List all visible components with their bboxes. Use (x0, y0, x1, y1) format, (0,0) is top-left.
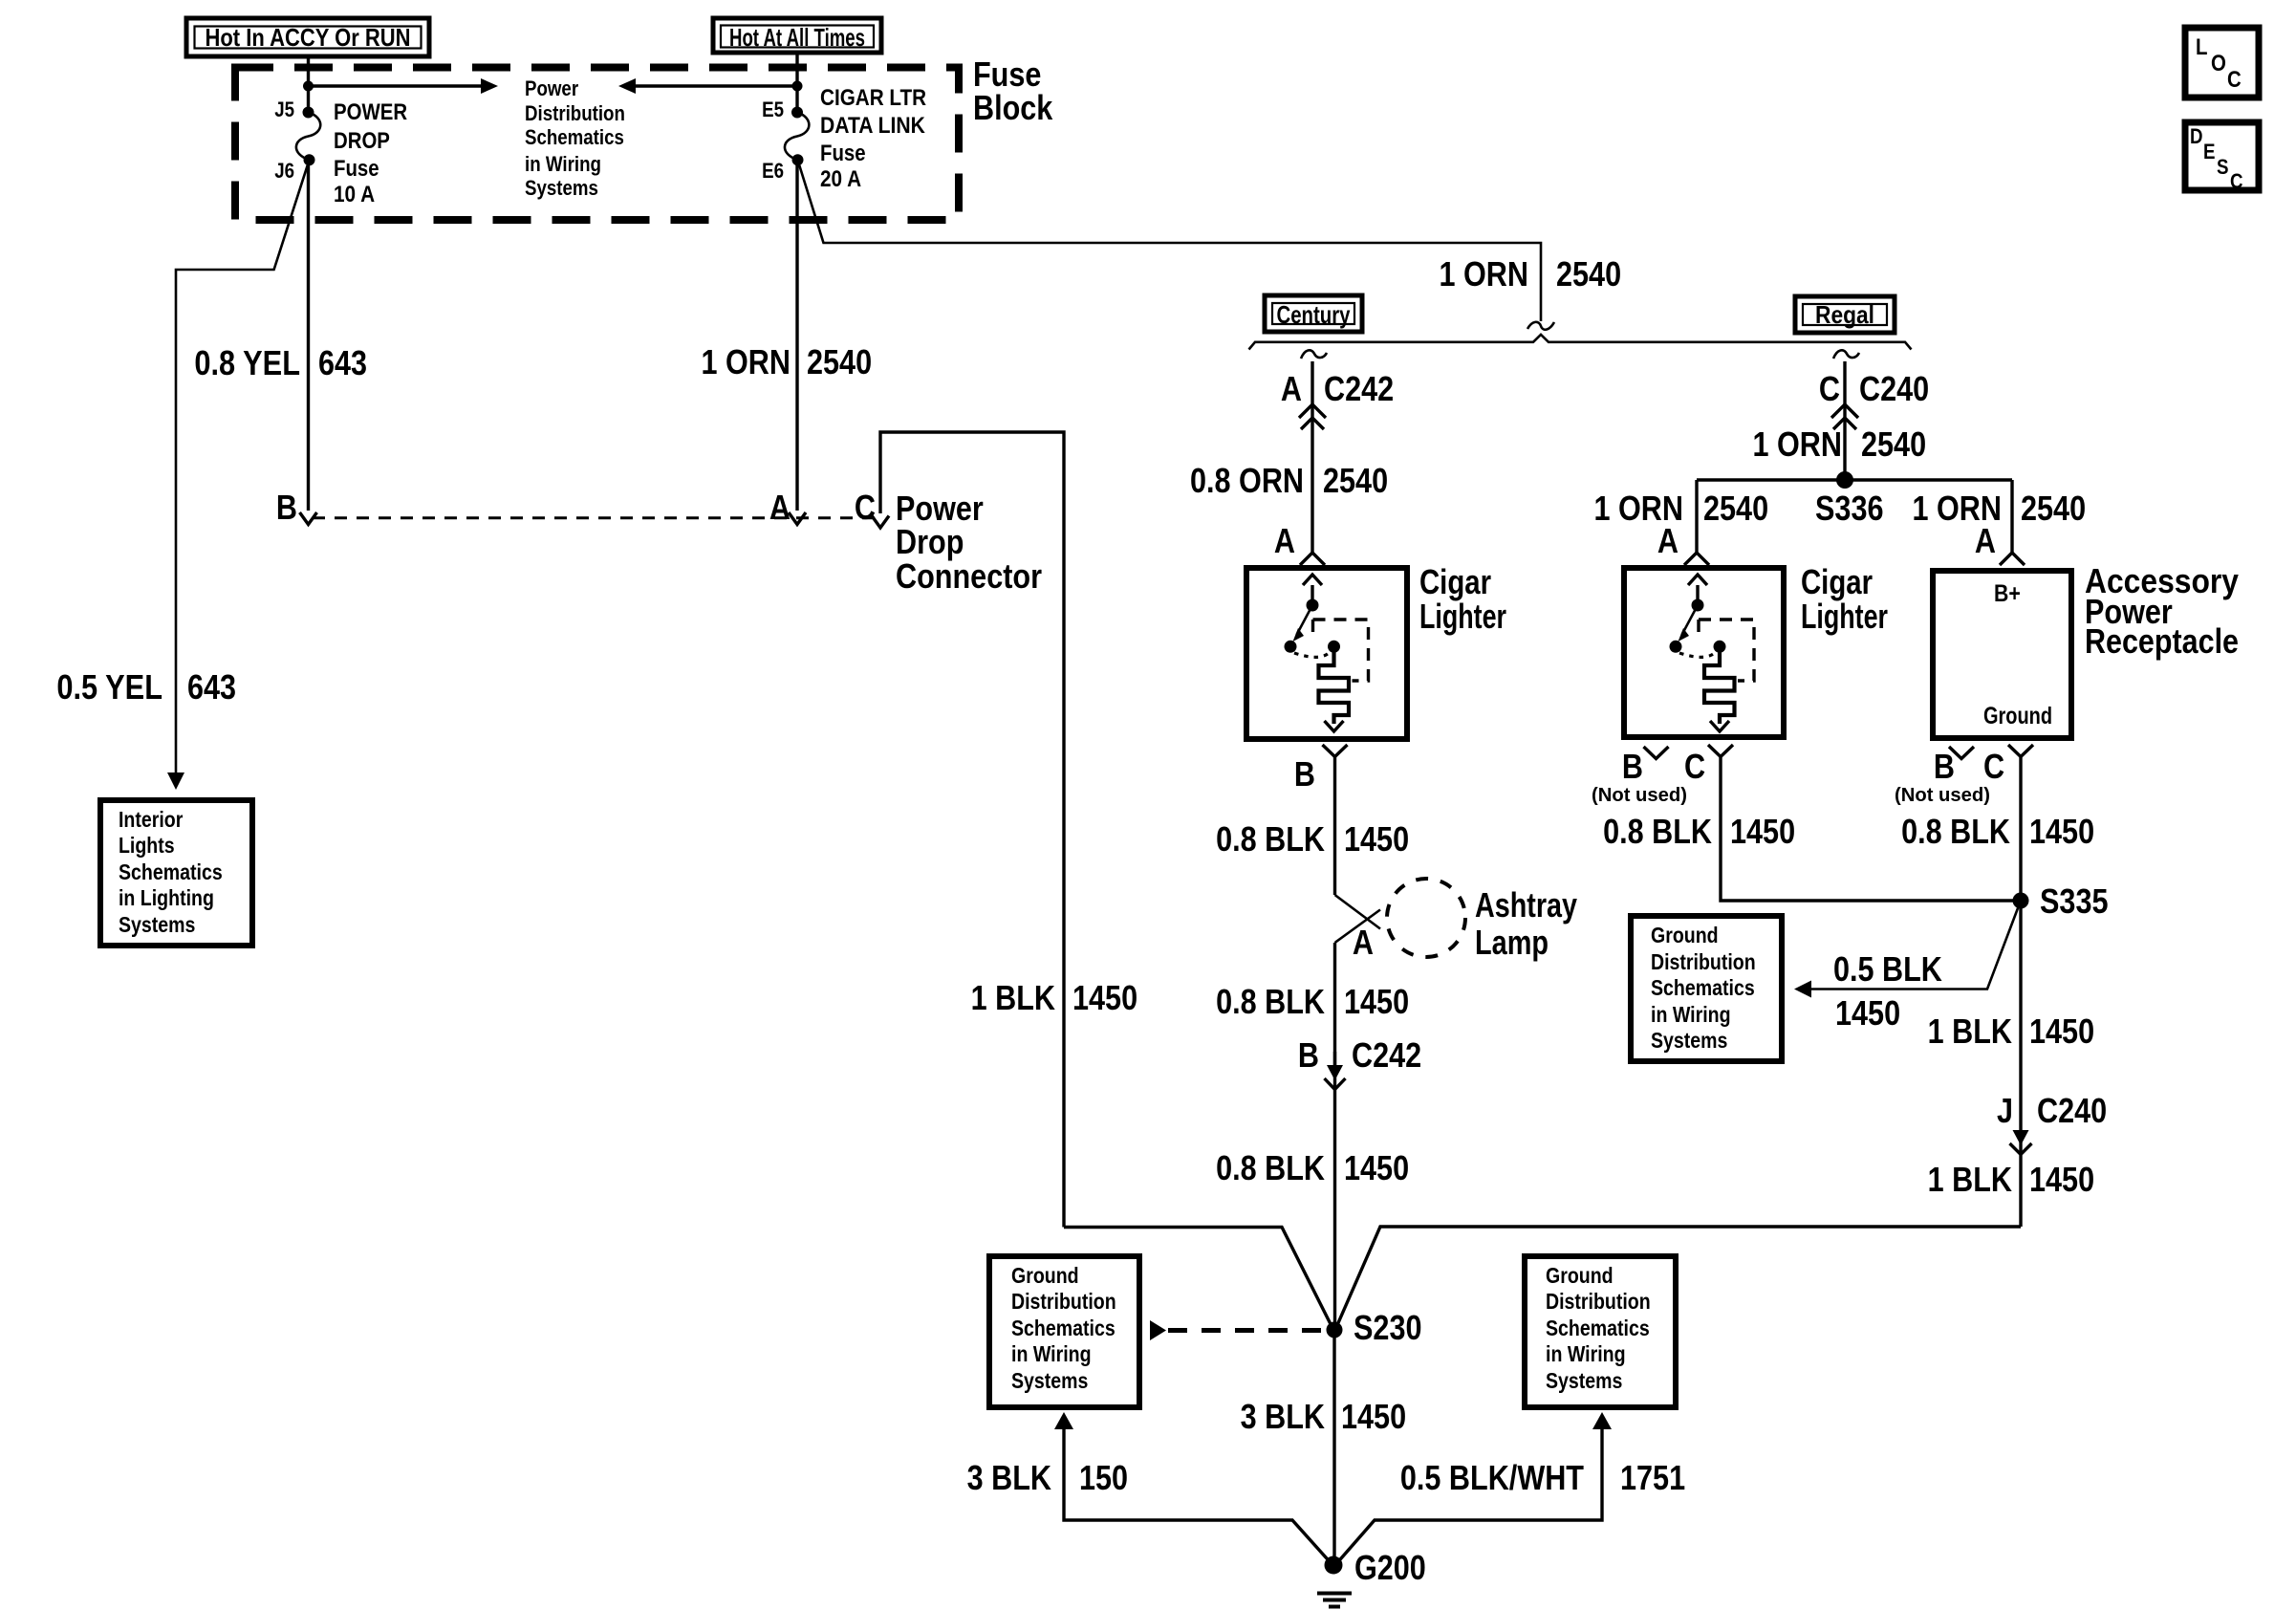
svg-text:Cigar: Cigar (1419, 562, 1491, 601)
svg-text:A: A (1281, 369, 1302, 408)
svg-text:0.8 BLK: 0.8 BLK (1216, 982, 1325, 1021)
svg-text:C: C (1819, 369, 1840, 408)
ashtray lamp dashed circle (1387, 879, 1465, 957)
label box Regal (1795, 296, 1895, 333)
svg-text:Century: Century (1277, 300, 1351, 329)
svg-text:B: B (276, 488, 297, 527)
svg-text:Drop: Drop (896, 522, 964, 561)
svg-text:A: A (769, 488, 791, 527)
svg-text:J6: J6 (274, 159, 294, 183)
svg-text:0.8 BLK: 0.8 BLK (1216, 1148, 1325, 1187)
wire C powerdrop up and over (880, 432, 1064, 1228)
svg-text:in Wiring: in Wiring (1011, 1341, 1092, 1366)
svg-text:A: A (1274, 521, 1295, 560)
svg-text:in Wiring: in Wiring (525, 152, 601, 176)
svg-text:Lighter: Lighter (1419, 597, 1506, 636)
arrow to Power Distribution text left (618, 78, 797, 94)
component box cigar lighter regal (1624, 568, 1784, 737)
svg-text:A: A (1975, 521, 1996, 560)
wire S336 right branch (2010, 480, 2013, 553)
wire J6 branch to interior lights (176, 160, 310, 773)
reference box Ground Distribution left (989, 1256, 1139, 1407)
connector C242 lower arrow (1325, 1052, 1346, 1090)
svg-text:2540: 2540 (1556, 254, 1621, 294)
svg-text:Ground: Ground (1011, 1263, 1079, 1288)
svg-text:0.8 ORN: 0.8 ORN (1190, 461, 1304, 500)
svg-text:Cigar: Cigar (1801, 562, 1873, 601)
svg-text:J5: J5 (274, 98, 294, 121)
svg-text:O: O (2211, 51, 2226, 76)
svg-text:in Lighting: in Lighting (119, 885, 214, 910)
component box accessory power receptacle (1933, 571, 2071, 738)
pin chevron A regal (1684, 553, 1709, 565)
splice S336 dot (1836, 471, 1853, 489)
wire S336 left branch (1695, 480, 1698, 553)
svg-text:2540: 2540 (1861, 424, 1926, 464)
svg-text:C: C (855, 488, 876, 527)
pin J6 dot (304, 154, 315, 165)
dashed connector line B A C (313, 516, 876, 519)
svg-text:S230: S230 (1354, 1308, 1422, 1347)
svg-text:G200: G200 (1354, 1548, 1426, 1587)
svg-text:0.8 BLK: 0.8 BLK (1603, 812, 1712, 851)
svg-text:1 ORN: 1 ORN (702, 342, 791, 381)
pin chevron B receptacle unused (1949, 747, 1974, 759)
wire from Hot At All Times box to E5 (795, 53, 798, 113)
pin chevron C regal (1708, 745, 1733, 757)
svg-text:1450: 1450 (1344, 1148, 1409, 1187)
svg-text:2540: 2540 (1323, 461, 1388, 500)
svg-text:Lighter: Lighter (1801, 597, 1888, 636)
svg-text:Schematics: Schematics (1011, 1316, 1116, 1340)
wire regal drop (1843, 361, 1846, 480)
fuse F2 CIGAR LTR 20A element (785, 113, 809, 161)
svg-text:1450: 1450 (1344, 819, 1409, 859)
curl top century drop (1301, 350, 1327, 359)
svg-text:B: B (1294, 754, 1315, 794)
svg-text:1450: 1450 (2029, 812, 2094, 851)
wire regal C down to S335 (1721, 757, 2021, 902)
open arrow A powerdrop (789, 512, 806, 525)
svg-text:0.5 YEL: 0.5 YEL (56, 667, 162, 707)
wire J6 down to power drop B (307, 160, 310, 511)
wire right bottom corner to funnel (1337, 1227, 2021, 1325)
svg-text:1450: 1450 (1730, 812, 1795, 851)
svg-text:in Wiring: in Wiring (1546, 1341, 1626, 1366)
cigar lighter century internals (1285, 575, 1369, 731)
svg-text:Ground: Ground (1546, 1263, 1614, 1288)
svg-text:Regal: Regal (1815, 300, 1874, 329)
svg-text:Distribution: Distribution (525, 101, 625, 125)
svg-text:C: C (1983, 747, 2004, 786)
svg-text:C240: C240 (1859, 369, 1929, 408)
svg-text:1450: 1450 (2029, 1012, 2094, 1051)
wire S336 horizontal (1697, 478, 2012, 481)
svg-text:B: B (1622, 747, 1643, 786)
arrow under Ground box left (1054, 1412, 1073, 1429)
svg-text:Fuse: Fuse (820, 141, 866, 166)
reference box Ground Distribution right (1525, 1256, 1676, 1407)
svg-text:3 BLK: 3 BLK (967, 1458, 1051, 1497)
svg-text:C242: C242 (1352, 1035, 1421, 1075)
pin J5 dot (303, 107, 314, 119)
svg-text:0.8 BLK: 0.8 BLK (1901, 812, 2010, 851)
svg-text:E: E (2203, 140, 2216, 163)
svg-text:10 A: 10 A (334, 182, 375, 207)
wire century drop (1310, 361, 1313, 553)
svg-text:2540: 2540 (807, 342, 872, 381)
svg-text:Lamp: Lamp (1475, 923, 1549, 962)
svg-text:1 BLK: 1 BLK (1928, 1160, 2012, 1199)
arrow into Interior Lights box (167, 772, 184, 790)
svg-text:Block: Block (973, 88, 1053, 127)
svg-text:Interior: Interior (119, 807, 183, 832)
svg-text:1 ORN: 1 ORN (1440, 254, 1529, 294)
svg-text:20 A: 20 A (820, 166, 861, 192)
svg-text:0.5 BLK: 0.5 BLK (1833, 949, 1942, 989)
svg-text:Fuse: Fuse (334, 156, 379, 182)
svg-text:C: C (1684, 747, 1705, 786)
wire E6 down to power drop A (795, 160, 798, 511)
svg-text:1751: 1751 (1620, 1458, 1685, 1497)
open arrow C powerdrop (872, 516, 889, 529)
svg-text:B: B (1934, 747, 1955, 786)
svg-text:1 BLK: 1 BLK (971, 978, 1055, 1017)
svg-text:A: A (1657, 521, 1679, 560)
dashed ref arrow to S230 (1150, 1320, 1325, 1340)
svg-text:S336: S336 (1815, 489, 1884, 528)
svg-text:Lights: Lights (119, 833, 175, 858)
reference box Interior Lights (100, 800, 252, 946)
wire from Hot In ACCY box to J5 (307, 56, 310, 113)
svg-text:DATA LINK: DATA LINK (820, 113, 925, 139)
fuse F1 POWER DROP 10A element (296, 113, 320, 161)
svg-text:C: C (2227, 67, 2242, 93)
svg-text:Receptacle: Receptacle (2085, 621, 2239, 661)
svg-text:1 BLK: 1 BLK (1928, 1012, 2012, 1051)
svg-text:Schematics: Schematics (525, 125, 624, 149)
component box cigar lighter century (1246, 568, 1407, 739)
wire 0.5 BLK/WHT to G200 (1338, 1428, 1603, 1562)
svg-text:C: C (2230, 169, 2243, 193)
pin E6 dot (792, 154, 804, 165)
splice S335 dot (2013, 893, 2029, 909)
svg-text:Hot In ACCY Or RUN: Hot In ACCY Or RUN (206, 23, 411, 52)
svg-text:643: 643 (318, 343, 367, 382)
svg-text:1450: 1450 (1072, 978, 1137, 1017)
svg-text:1450: 1450 (1344, 982, 1409, 1021)
break symbol on 1 ORN feed (1527, 322, 1554, 330)
svg-text:C242: C242 (1324, 369, 1394, 408)
svg-text:Systems: Systems (525, 176, 598, 200)
svg-text:2540: 2540 (2021, 489, 2086, 528)
svg-text:A: A (1353, 923, 1374, 962)
wire receptacle C down (2019, 757, 2022, 1228)
svg-text:1450: 1450 (2029, 1160, 2094, 1199)
curl top regal drop (1833, 350, 1859, 359)
svg-text:(Not used): (Not used) (1895, 785, 1990, 806)
pin chevron A century (1300, 553, 1325, 565)
svg-text:E5: E5 (762, 98, 784, 121)
svg-text:Schematics: Schematics (1651, 975, 1755, 1000)
svg-text:S335: S335 (2040, 881, 2109, 921)
svg-text:Power: Power (525, 76, 578, 100)
ground symbol G200 (1317, 1594, 1352, 1607)
svg-text:Distribution: Distribution (1651, 949, 1756, 974)
svg-text:L: L (2196, 34, 2208, 60)
pin chevron A receptacle (2000, 553, 2025, 565)
pin chevron C receptacle (2008, 745, 2033, 757)
wire century below ashtray (1333, 943, 1336, 1330)
svg-text:1450: 1450 (1341, 1397, 1406, 1436)
svg-text:Systems: Systems (1011, 1368, 1088, 1393)
pin E5 dot (791, 107, 803, 119)
svg-text:0.5 BLK/WHT: 0.5 BLK/WHT (1400, 1458, 1584, 1497)
wire S335 to ground ref (1794, 901, 2021, 998)
svg-text:B+: B+ (1994, 580, 2021, 607)
svg-text:CIGAR LTR: CIGAR LTR (820, 85, 926, 111)
ashtray lamp tap X (1335, 895, 1381, 943)
svg-text:Schematics: Schematics (1546, 1316, 1650, 1340)
fuse block outline (235, 68, 959, 221)
svg-text:Ground: Ground (1651, 923, 1719, 947)
splice S230 dot (1327, 1322, 1343, 1338)
svg-text:Systems: Systems (119, 912, 195, 937)
cigar lighter regal internals (1670, 575, 1755, 731)
arrow to Power Distribution text (309, 78, 499, 94)
svg-text:Systems: Systems (1651, 1028, 1727, 1053)
svg-text:in Wiring: in Wiring (1651, 1002, 1731, 1027)
connector C240 lower arrow (2010, 1130, 2032, 1155)
svg-text:Hot At All Times: Hot At All Times (729, 23, 865, 52)
connector C242 chevrons (1299, 404, 1326, 429)
connector C240 chevrons (1831, 404, 1858, 429)
ground dot G200 (1325, 1556, 1343, 1575)
reference box Ground Distribution mid (1631, 916, 1782, 1061)
junction dot J feed (303, 81, 314, 92)
svg-text:Schematics: Schematics (119, 859, 223, 884)
svg-text:Distribution: Distribution (1546, 1289, 1651, 1314)
label box Hot At All Times (713, 18, 881, 53)
wire S230 to G200 (1332, 1330, 1335, 1562)
label box Century (1265, 295, 1362, 332)
arrow under Ground box right (1592, 1412, 1612, 1429)
pin chevron B century bottom (1323, 745, 1348, 757)
svg-text:S: S (2217, 155, 2229, 179)
svg-text:Distribution: Distribution (1011, 1289, 1116, 1314)
svg-text:(Not used): (Not used) (1592, 785, 1687, 806)
svg-text:0.8 YEL: 0.8 YEL (194, 343, 300, 382)
svg-text:150: 150 (1079, 1458, 1128, 1497)
svg-text:2540: 2540 (1703, 489, 1768, 528)
svg-text:D: D (2190, 124, 2203, 148)
svg-text:3 BLK: 3 BLK (1241, 1397, 1325, 1436)
wire left funnel to S230 (1064, 1228, 1332, 1326)
svg-text:Systems: Systems (1546, 1368, 1622, 1393)
wire 3 BLK 150 to G200 (1064, 1428, 1331, 1562)
svg-text:Ashtray: Ashtray (1475, 885, 1577, 925)
svg-text:POWER: POWER (334, 99, 407, 125)
svg-text:Connector: Connector (896, 556, 1042, 596)
svg-text:DROP: DROP (334, 128, 390, 154)
junction dot E feed (792, 81, 803, 92)
svg-text:E6: E6 (762, 159, 784, 183)
svg-text:1450: 1450 (1835, 993, 1900, 1033)
svg-text:643: 643 (187, 667, 236, 707)
harness bracket (1249, 335, 1912, 350)
svg-text:0.8 BLK: 0.8 BLK (1216, 819, 1325, 859)
svg-text:B: B (1298, 1035, 1319, 1075)
pin chevron B regal unused (1644, 747, 1669, 759)
svg-text:J: J (1997, 1091, 2013, 1130)
label box Hot In ACCY Or RUN (186, 18, 429, 56)
svg-text:C240: C240 (2037, 1091, 2107, 1130)
svg-text:Ground: Ground (1983, 703, 2052, 729)
open arrow B powerdrop (300, 512, 317, 525)
wire century B down (1333, 757, 1336, 896)
legend box DESC (2185, 122, 2259, 190)
wire E6 branch to 1 ORN feed (798, 160, 1542, 321)
legend box LOC (2185, 28, 2259, 98)
svg-text:1 ORN: 1 ORN (1753, 424, 1843, 464)
